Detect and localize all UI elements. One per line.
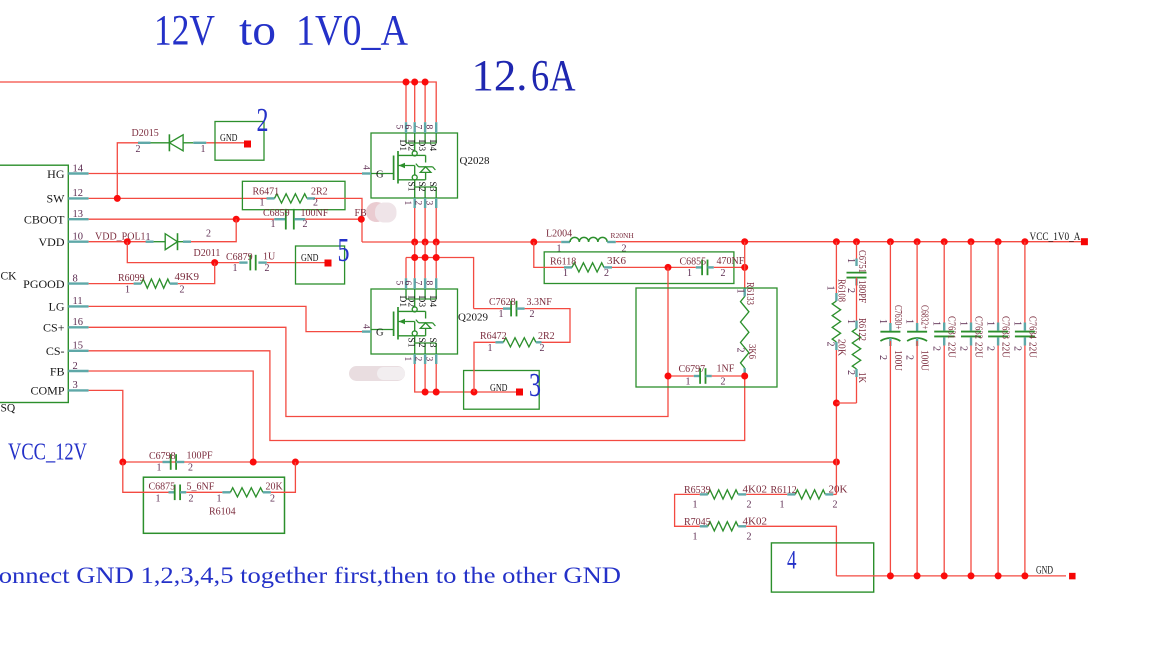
svg-text:1: 1 (686, 377, 691, 388)
wire R6472 pin1 to GND 3 (474, 342, 495, 392)
svg-text:C6798: C6798 (149, 451, 176, 462)
wire VCC_1V0_A output rail (616, 241, 1081, 243)
svg-text:S1: S1 (406, 182, 416, 192)
junction dot VDD (124, 238, 131, 245)
svg-text:HG: HG (47, 167, 65, 181)
svg-text:22U: 22U (1026, 342, 1037, 359)
svg-text:2: 2 (957, 346, 968, 351)
svg-text:6A: 6A (531, 51, 576, 100)
svg-text:2: 2 (604, 268, 609, 279)
svg-text:CS-: CS- (46, 344, 65, 358)
svg-text:GND: GND (1036, 562, 1053, 576)
svg-text:2: 2 (735, 348, 746, 353)
junction dots bottom GND rail (887, 572, 894, 579)
junction dots SW node (411, 239, 418, 246)
svg-text:GND: GND (301, 252, 319, 264)
wire SW to R6118 (534, 242, 564, 267)
svg-text:SQ: SQ (1, 403, 16, 415)
capacitor C7630+ 100U (889, 242, 891, 323)
svg-text:1: 1 (693, 499, 698, 510)
svg-text:1: 1 (1011, 321, 1022, 326)
svg-text:GND: GND (220, 132, 238, 144)
svg-text:1: 1 (563, 268, 568, 279)
capacitor C6879 1U (215, 262, 240, 264)
svg-text:1: 1 (260, 198, 265, 209)
svg-text:12.: 12. (472, 51, 528, 100)
wire bottom GND rail (836, 575, 1066, 577)
svg-text:R6133: R6133 (744, 282, 755, 305)
wire LG to Q2029 gate (89, 306, 362, 331)
wire SW to D2015 (117, 143, 138, 199)
svg-text:2: 2 (833, 499, 838, 510)
svg-text:D2011: D2011 (194, 248, 221, 259)
svg-text:2R2: 2R2 (538, 331, 555, 342)
wire CBOOT pin (89, 218, 275, 220)
svg-text:2: 2 (824, 342, 835, 347)
svg-text:1: 1 (693, 531, 698, 542)
svg-text:G: G (376, 170, 384, 181)
svg-text:S1: S1 (406, 338, 416, 348)
resistor R6118 3K6 (564, 266, 572, 268)
svg-text:2: 2 (747, 531, 752, 542)
svg-text:2: 2 (265, 263, 270, 274)
wire SW pin to R6471 (89, 197, 267, 199)
svg-text:C6875: C6875 (149, 481, 176, 492)
highlight blob B (349, 366, 405, 381)
capacitor C7628 3.3NF (474, 308, 503, 310)
svg-text:1U: 1U (263, 251, 276, 262)
ground symbol GND 3 (464, 371, 540, 410)
svg-text:2: 2 (845, 288, 856, 293)
wire C7628 to R6472 (525, 309, 570, 343)
svg-text:1: 1 (402, 357, 412, 362)
svg-text:1: 1 (157, 463, 162, 474)
svg-text:C7631: C7631 (946, 316, 957, 339)
svg-text:5: 5 (394, 125, 404, 130)
svg-text:1: 1 (845, 319, 856, 324)
svg-text:100U: 100U (919, 350, 930, 372)
svg-text:D1: D1 (397, 296, 407, 308)
svg-text:2: 2 (257, 102, 269, 139)
svg-text:C6832+: C6832+ (919, 305, 930, 330)
svg-text:1K: 1K (856, 372, 867, 384)
svg-text:Q2029: Q2029 (458, 312, 488, 324)
svg-text:1: 1 (931, 321, 942, 326)
svg-text:C6879: C6879 (226, 252, 253, 263)
transistor Q2029 (361, 278, 458, 364)
wire VDD branch down to C6879 (127, 242, 214, 263)
svg-text:49K9: 49K9 (175, 271, 200, 283)
junction dots C6797 (665, 373, 672, 380)
svg-text:Connect GND 1,2,3,4,5 together: Connect GND 1,2,3,4,5 together first,the… (0, 563, 621, 588)
svg-text:2: 2 (877, 355, 888, 360)
svg-text:2: 2 (985, 346, 996, 351)
svg-text:2: 2 (845, 370, 856, 375)
junction dot SW/D2015 (114, 195, 121, 202)
svg-text:4: 4 (361, 324, 371, 329)
svg-text:GND: GND (490, 382, 508, 394)
wire CS- sense (89, 351, 745, 441)
capacitor C6798 100PF (163, 461, 171, 463)
svg-text:PGOOD: PGOOD (23, 277, 65, 291)
svg-text:to: to (239, 7, 276, 54)
resistor R7045 4K02 (700, 525, 708, 527)
resistor R6108 20K vertical (835, 242, 837, 293)
svg-text:1: 1 (217, 493, 222, 504)
wire output down through R6133 column (744, 242, 746, 289)
svg-text:4: 4 (787, 546, 797, 575)
capacitor C6855 470NF (696, 266, 702, 268)
sense network box (544, 252, 734, 284)
svg-text:3: 3 (424, 357, 434, 362)
svg-text:VCC_12V: VCC_12V (8, 440, 88, 466)
wire R7045 pin2 to bottom GND (746, 526, 836, 576)
junction dots on top rail (403, 79, 410, 86)
svg-text:D4: D4 (427, 296, 437, 308)
junction dots R6118/C6855 (665, 264, 672, 271)
svg-text:1: 1 (488, 343, 493, 354)
svg-text:Q2028: Q2028 (460, 155, 490, 167)
wire PGOOD pin (89, 283, 134, 285)
wire FB (89, 371, 254, 462)
wire D2015 anode to GND 2 (206, 142, 244, 144)
resistor R6122 1K vertical (856, 278, 858, 321)
svg-text:S3: S3 (427, 338, 437, 348)
svg-text:1: 1 (735, 289, 746, 294)
resistor R6539 4K02 (700, 493, 708, 495)
svg-text:R6099: R6099 (118, 273, 145, 284)
svg-text:1: 1 (201, 144, 206, 155)
transistor Q2028 (361, 122, 458, 208)
capacitor C7632 22U (970, 242, 972, 323)
svg-text:12V: 12V (154, 7, 215, 54)
svg-text:S2: S2 (416, 338, 426, 348)
svg-text:2R2: 2R2 (311, 187, 328, 198)
svg-text:4: 4 (361, 165, 371, 170)
svg-text:VCC_1V0_A: VCC_1V0_A (1030, 229, 1081, 243)
svg-text:2: 2 (313, 198, 318, 209)
resistor R6472 2R2 (495, 341, 503, 343)
svg-text:6: 6 (402, 281, 412, 286)
svg-text:8: 8 (424, 125, 434, 130)
junction dots FB node line (119, 459, 126, 466)
wire R6118 pin2 to C6855 (612, 266, 696, 268)
capacitor C6797 1NF (668, 375, 694, 377)
svg-text:1: 1 (904, 319, 915, 324)
wire R6539 pin1 to R7045 pin1 (675, 494, 700, 526)
terminal square GND (1069, 573, 1076, 580)
wire FB node line (123, 461, 837, 463)
svg-text:3: 3 (424, 201, 434, 206)
svg-text:5: 5 (338, 232, 350, 269)
svg-text:R7045: R7045 (684, 517, 711, 528)
highlight blob A (366, 202, 387, 222)
wire Q2029 sources to GND 3 (415, 364, 516, 392)
svg-text:2: 2 (189, 493, 194, 504)
svg-text:1: 1 (687, 268, 692, 279)
svg-text:5_6NF: 5_6NF (187, 481, 215, 492)
svg-text:2: 2 (622, 243, 627, 254)
svg-text:2: 2 (747, 499, 752, 510)
svg-text:1: 1 (824, 286, 835, 291)
svg-text:1: 1 (845, 258, 856, 263)
svg-text:2: 2 (931, 346, 942, 351)
wire R6539 to R6112 (746, 493, 787, 495)
svg-text:S3: S3 (427, 182, 437, 192)
capacitor C6832+ 100U (916, 242, 918, 323)
svg-text:1V0_A: 1V0_A (296, 7, 408, 54)
compensation box R6104 (143, 477, 284, 533)
svg-text:C7630+: C7630+ (892, 305, 903, 330)
svg-text:VDD: VDD (39, 235, 65, 249)
svg-text:3K6: 3K6 (607, 255, 626, 267)
svg-text:VDD_POL1: VDD_POL1 (95, 232, 146, 243)
svg-text:3.3NF: 3.3NF (527, 297, 553, 308)
wire COMP (89, 390, 123, 462)
svg-text:22U: 22U (972, 342, 983, 359)
svg-text:R20NH: R20NH (611, 231, 635, 240)
svg-text:20K: 20K (836, 339, 847, 357)
svg-text:LG: LG (49, 300, 65, 314)
svg-text:1: 1 (125, 285, 130, 296)
wire Q2029 drain link (406, 258, 474, 309)
svg-text:20K: 20K (829, 483, 848, 495)
svg-text:R6104: R6104 (209, 507, 236, 518)
junction dots GND 3 line (422, 389, 429, 396)
junction dots Q2029 drain link (411, 254, 418, 261)
svg-text:8: 8 (424, 281, 434, 286)
svg-text:CK: CK (1, 271, 18, 283)
capacitor C7633 22U (997, 242, 999, 323)
capacitor C6875 5.6NF (169, 491, 175, 493)
ground group box 4 (771, 543, 873, 592)
svg-text:CBOOT: CBOOT (24, 213, 65, 227)
svg-text:C7634: C7634 (1026, 316, 1037, 339)
junction dots CBOOT line (233, 216, 240, 223)
svg-text:C6859: C6859 (263, 208, 290, 219)
svg-text:22U: 22U (1000, 342, 1011, 359)
wire CS junction column (667, 267, 669, 376)
svg-text:D2015: D2015 (132, 128, 159, 139)
svg-text:R6471: R6471 (253, 187, 280, 198)
svg-text:2: 2 (721, 377, 726, 388)
svg-text:1: 1 (233, 263, 238, 274)
svg-text:2: 2 (136, 144, 141, 155)
svg-text:100U: 100U (892, 350, 903, 372)
svg-text:2: 2 (180, 285, 185, 296)
svg-text:SW: SW (47, 192, 66, 206)
capacitor C7631 22U (943, 242, 945, 323)
svg-text:22U: 22U (946, 342, 957, 359)
capacitor C7634 22U (1024, 242, 1026, 323)
ground symbol GND 2 (215, 122, 264, 161)
svg-text:D3: D3 (416, 296, 426, 308)
svg-text:1: 1 (156, 493, 161, 504)
wire R6471 pin2 down to SW node (315, 198, 362, 242)
inductor L2004 R20NH (561, 241, 570, 243)
op-amp/controller IC U (left, clipped) (0, 165, 68, 402)
svg-text:R6112: R6112 (771, 485, 797, 496)
resistor R6099 49K9 (134, 282, 142, 284)
wire HG to Q2028 gate (89, 173, 362, 175)
svg-text:R6122: R6122 (856, 318, 867, 341)
wire Q2028 sources to SW node (414, 208, 416, 242)
wire C6879 to GND 5 (267, 262, 325, 264)
svg-text:1: 1 (957, 321, 968, 326)
svg-text:2: 2 (530, 309, 535, 320)
wire R6104 pin2 up to FB line (271, 462, 296, 492)
svg-text:COMP: COMP (30, 384, 64, 398)
svg-text:3K6: 3K6 (746, 344, 757, 359)
svg-text:7: 7 (413, 125, 423, 130)
wire CS+ sense (89, 327, 668, 416)
svg-text:FB: FB (50, 364, 65, 378)
ground symbol GND 5 (296, 246, 345, 284)
svg-text:FB: FB (355, 208, 368, 219)
svg-text:C7632: C7632 (972, 316, 983, 339)
svg-text:3: 3 (529, 367, 541, 404)
svg-text:1: 1 (271, 219, 276, 230)
svg-text:D4: D4 (427, 140, 437, 152)
wire C6859 pin2 to SW vertical (305, 218, 361, 220)
diode D2011 (146, 240, 154, 242)
svg-text:R6472: R6472 (480, 331, 507, 342)
junction dot C6879/R6099 (211, 259, 218, 266)
svg-text:100PF: 100PF (187, 450, 214, 461)
svg-text:2: 2 (188, 463, 193, 474)
capacitor C6859 100NF (274, 218, 285, 220)
svg-text:C7628: C7628 (489, 297, 516, 308)
wire D2011 cathode up to CBOOT (191, 219, 236, 242)
resistor R6133 3K6 vertical (744, 289, 746, 297)
wire SW node (362, 241, 561, 243)
svg-text:2: 2 (1011, 346, 1022, 351)
svg-text:2: 2 (721, 268, 726, 279)
svg-text:470NF: 470NF (717, 256, 745, 267)
svg-text:2: 2 (303, 219, 308, 230)
svg-text:4K02: 4K02 (743, 483, 767, 495)
svg-text:1NF: 1NF (717, 363, 735, 374)
snubber box around R6471 (242, 181, 345, 209)
svg-text:L2004: L2004 (546, 229, 572, 240)
svg-text:2: 2 (206, 229, 211, 240)
svg-text:C7633: C7633 (1000, 316, 1011, 339)
svg-text:1: 1 (557, 243, 562, 254)
svg-text:C6751: C6751 (856, 250, 867, 273)
wire C6855 pin2 to output (714, 266, 745, 268)
resistor R6471 2R2 (267, 197, 275, 199)
diode D2015 (138, 142, 151, 144)
svg-text:2: 2 (270, 493, 275, 504)
svg-text:5: 5 (394, 281, 404, 286)
resistor R6104 20K (222, 491, 230, 493)
wire FB column to R6112 (835, 462, 837, 494)
junction dots output rail (741, 238, 748, 245)
terminal square VCC_1V0_A (1081, 238, 1088, 245)
svg-text:C6855: C6855 (680, 256, 707, 267)
svg-text:S2: S2 (416, 182, 426, 192)
svg-text:2: 2 (413, 201, 423, 206)
wire VDD pin to D2011 (89, 241, 154, 243)
svg-text:CS+: CS+ (43, 321, 65, 335)
wire R6099 pin2 up to C6879 node (178, 263, 215, 284)
svg-text:C6797: C6797 (679, 364, 706, 375)
svg-text:2: 2 (904, 355, 915, 360)
svg-text:1: 1 (780, 499, 785, 510)
svg-text:1: 1 (877, 319, 888, 324)
svg-text:1: 1 (499, 309, 504, 320)
divider box R6133/C6797 (636, 288, 777, 387)
svg-text:2: 2 (540, 343, 545, 354)
svg-text:20K: 20K (266, 481, 284, 492)
svg-text:6: 6 (402, 125, 412, 130)
svg-text:D3: D3 (416, 140, 426, 152)
svg-text:100NF: 100NF (301, 208, 329, 219)
capacitor C6751 180PF (856, 242, 858, 259)
svg-text:1: 1 (402, 201, 412, 206)
svg-text:D1: D1 (397, 140, 407, 152)
svg-text:G: G (376, 328, 384, 339)
svg-text:2: 2 (413, 357, 423, 362)
svg-text:4K02: 4K02 (743, 515, 767, 527)
wire C6875 to R6104 (186, 491, 222, 493)
svg-text:7: 7 (413, 281, 423, 286)
wire R6122 bottom link (836, 402, 856, 404)
wire 12V input top rail (0, 82, 436, 122)
svg-text:1: 1 (985, 321, 996, 326)
junction dot R6108/R6122 (833, 400, 840, 407)
svg-text:180PF: 180PF (856, 280, 867, 303)
resistor R6112 20K (787, 493, 795, 495)
svg-text:R6118: R6118 (550, 256, 576, 267)
wire COMP branch to C6875 (123, 462, 169, 492)
